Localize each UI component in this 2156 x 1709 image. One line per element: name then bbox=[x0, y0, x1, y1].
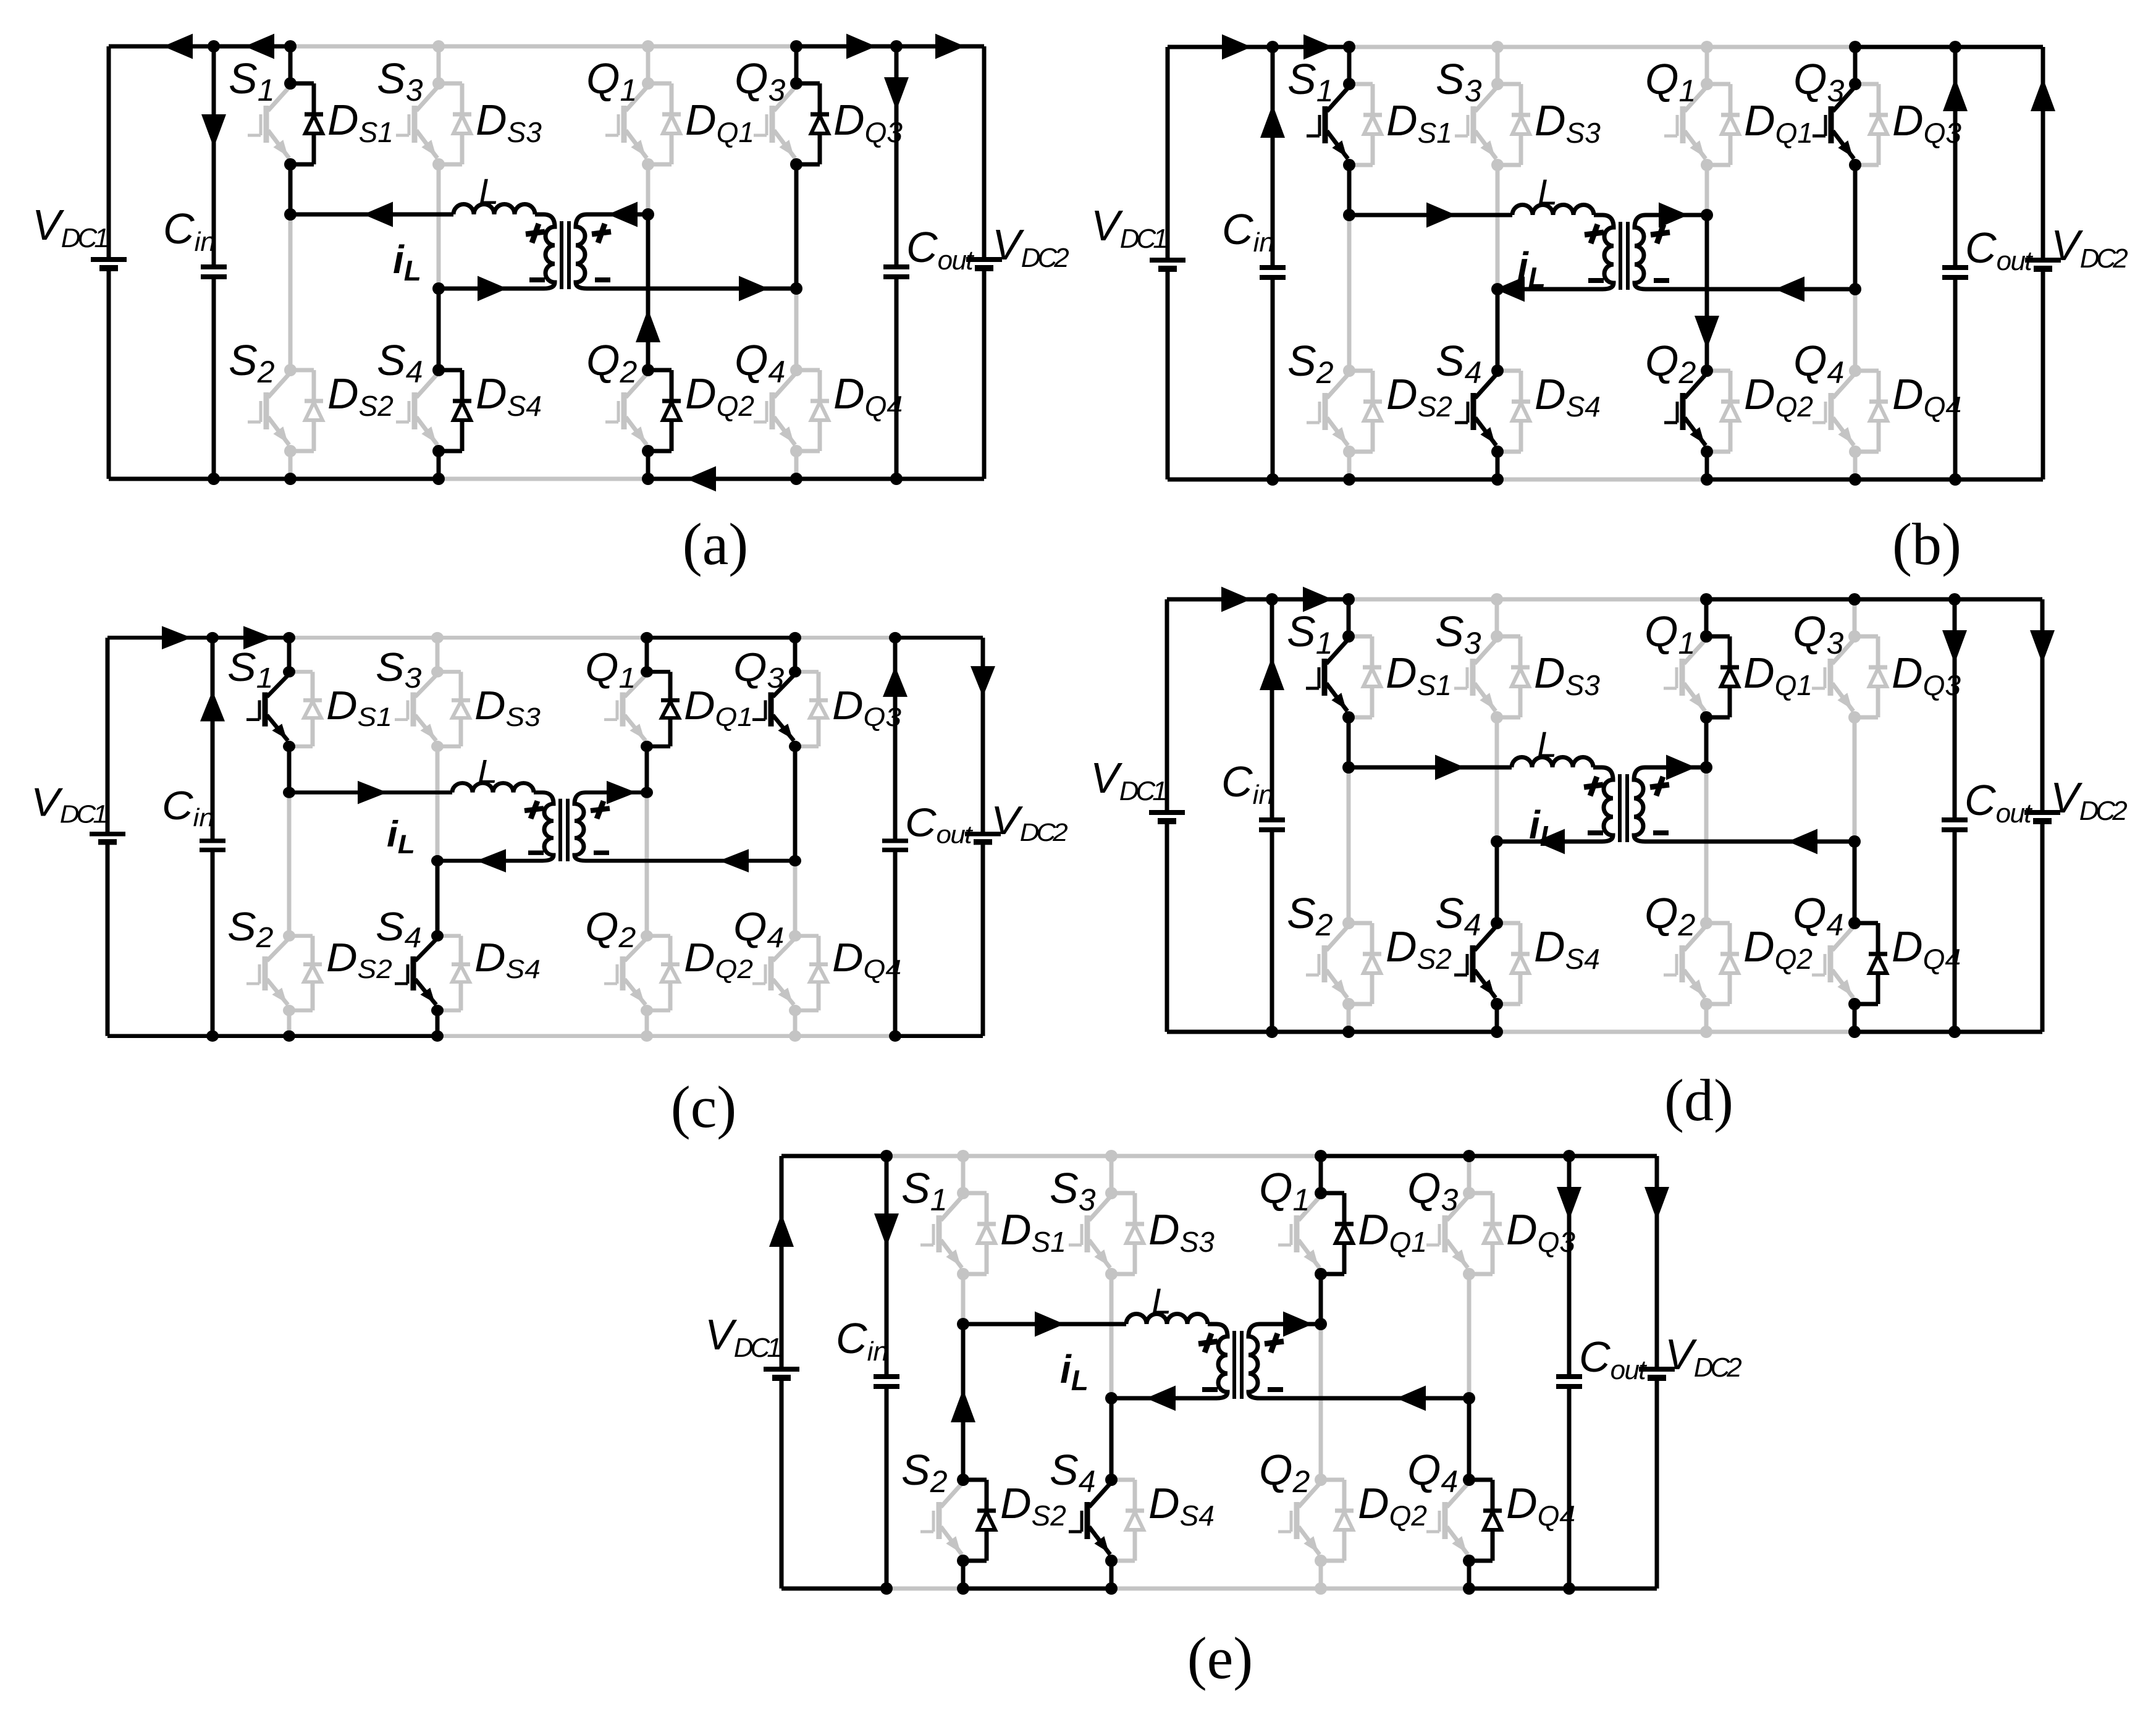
svg-text:(e): (e) bbox=[1187, 1625, 1253, 1691]
svg-text:L: L bbox=[1538, 172, 1557, 213]
svg-text:L: L bbox=[1537, 725, 1557, 765]
svg-text:L: L bbox=[1152, 1281, 1171, 1322]
svg-text:L: L bbox=[478, 753, 497, 790]
svg-text:(b): (b) bbox=[1892, 511, 1961, 577]
svg-text:L: L bbox=[479, 172, 499, 212]
svg-text:(c): (c) bbox=[671, 1074, 737, 1140]
svg-text:(a): (a) bbox=[683, 511, 749, 577]
svg-text:(d): (d) bbox=[1664, 1067, 1733, 1133]
